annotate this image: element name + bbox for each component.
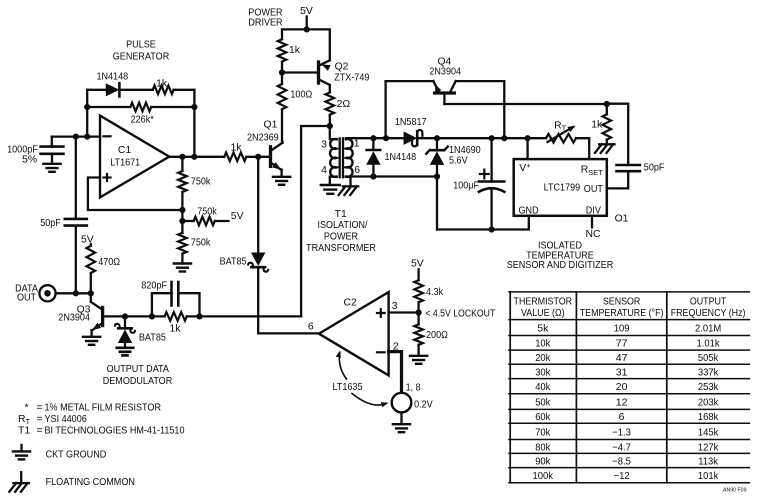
svg-text:6: 6 — [354, 165, 360, 176]
svg-text:4.3k: 4.3k — [426, 287, 444, 298]
capacitor 50pF (output) — [607, 162, 665, 188]
svg-text:LTC1799: LTC1799 — [544, 182, 581, 193]
transistor Q2 ZTX-749 — [319, 60, 370, 92]
svg-text:THERMISTOR: THERMISTOR — [514, 296, 573, 307]
wire Q3 base / demodulator — [103, 313, 165, 319]
resistor 1k (RSET bias) — [591, 104, 611, 144]
wire Q4 base to 1k — [444, 101, 610, 107]
wire zener to ground rail — [436, 177, 438, 230]
svg-text:1N5817: 1N5817 — [395, 117, 427, 128]
svg-text:=: = — [37, 425, 43, 436]
resistor 750k (middle, to 5V) — [182, 206, 228, 225]
label CKT GROUND — [46, 449, 107, 460]
wire Q2 base — [279, 69, 319, 75]
svg-text:BAT85: BAT85 — [220, 257, 247, 268]
label 01 — [615, 213, 629, 224]
resistor 1k (demodulator) — [165, 312, 302, 335]
svg-text:1k: 1k — [591, 120, 603, 131]
svg-text:ISOLATION/: ISOLATION/ — [317, 220, 367, 231]
table thermistor/temperature/frequency — [509, 292, 749, 483]
svg-text:145k: 145k — [698, 426, 719, 438]
pin DIV NC stub — [585, 216, 601, 240]
svg-text:FLOATING COMMON: FLOATING COMMON — [46, 477, 135, 488]
legend floating common symbol — [9, 472, 29, 492]
wire inverting input — [52, 134, 100, 140]
svg-text:YSI 44006: YSI 44006 — [45, 414, 87, 425]
svg-text:50pF: 50pF — [40, 218, 61, 229]
svg-text:80k: 80k — [535, 441, 551, 453]
svg-text:50k: 50k — [535, 397, 551, 409]
transistor Q3 2N3904 — [58, 293, 102, 336]
svg-text:70k: 70k — [535, 426, 551, 438]
svg-text:203k: 203k — [698, 397, 719, 409]
wire V+ pin — [526, 138, 528, 159]
wire C2 pin 2 — [389, 342, 402, 393]
svg-text:1, 8: 1, 8 — [406, 382, 421, 393]
ground — [410, 356, 427, 364]
svg-text:*: * — [24, 402, 28, 413]
svg-text:T1: T1 — [18, 425, 30, 436]
svg-text:12: 12 — [616, 397, 628, 409]
resistor 100ohm — [278, 84, 313, 142]
IC U1 LTC1799 — [514, 159, 607, 216]
svg-text:60k: 60k — [535, 411, 551, 423]
ground — [43, 164, 60, 172]
wire to ground — [400, 413, 402, 424]
ground — [273, 177, 290, 185]
diode BAT85 (demodulator) — [115, 316, 166, 347]
svg-text:337k: 337k — [698, 366, 719, 378]
capacitor 1000pF 5% — [7, 137, 63, 166]
resistor 750k (upper) — [178, 157, 211, 233]
transformer T1 core — [340, 138, 343, 177]
svg-text:2: 2 — [393, 342, 399, 353]
reference 0.2V (pins 1,8) — [392, 382, 433, 412]
svg-text:−12: −12 — [614, 470, 630, 482]
resistor 226k* — [84, 103, 197, 126]
label OUTPUT DATA DEMODULATOR — [103, 364, 173, 387]
svg-text:100Ω: 100Ω — [290, 89, 312, 100]
svg-text:O1: O1 — [615, 213, 629, 224]
svg-text:31: 31 — [616, 366, 628, 378]
legend ckt ground symbol — [13, 445, 30, 460]
capacitor 820pF — [141, 281, 199, 317]
svg-text:ZTX-749: ZTX-749 — [334, 73, 369, 84]
wire secondary top rail — [346, 135, 404, 141]
svg-text:TEMPERATURE (°F): TEMPERATURE (°F) — [580, 308, 664, 319]
ground — [321, 185, 340, 194]
svg-text:Q1: Q1 — [264, 120, 278, 131]
wire feedback right vertical — [191, 90, 197, 160]
resistor 2ohm — [326, 92, 351, 126]
svg-text:5k: 5k — [537, 322, 549, 334]
label PULSE GENERATOR — [113, 40, 170, 63]
power 5V — [411, 259, 424, 281]
wire secondary bottom — [346, 173, 440, 179]
svg-text:1.01k: 1.01k — [697, 338, 721, 350]
svg-text:1% METAL FILM RESISTOR: 1% METAL FILM RESISTOR — [45, 402, 162, 413]
wire non-inverting input loop — [88, 178, 186, 214]
wire 50pF to data out — [75, 226, 77, 294]
svg-text:=: = — [37, 414, 43, 425]
svg-text:T1: T1 — [335, 209, 347, 220]
svg-text:1N4148: 1N4148 — [385, 152, 417, 163]
svg-text:6: 6 — [308, 321, 314, 332]
label FLOATING COMMON — [46, 477, 135, 488]
wire 2ohm to transformer and demodulator tap — [301, 123, 333, 317]
pin 4 — [321, 165, 327, 176]
wire secondary top rail right — [417, 135, 546, 141]
svg-text:750k: 750k — [191, 177, 211, 188]
resistor 1k (power driver) — [278, 39, 301, 84]
svg-text:127k: 127k — [698, 441, 719, 453]
resistor 1k (feedback) — [119, 78, 194, 94]
svg-text:BAT85: BAT85 — [139, 332, 166, 343]
svg-text:Q2: Q2 — [335, 61, 349, 72]
diode BAT85 (clamp at Q1 base) — [220, 157, 269, 334]
svg-text:100μF: 100μF — [453, 180, 479, 191]
svg-text:2.01M: 2.01M — [695, 322, 721, 334]
transistor Q4 2N3904 — [386, 56, 505, 138]
svg-text:1: 1 — [354, 139, 360, 150]
label AN90 F09 — [723, 488, 747, 494]
svg-text:CKT GROUND: CKT GROUND — [46, 449, 107, 460]
svg-text:40k: 40k — [535, 381, 551, 393]
svg-text:1k: 1k — [156, 78, 168, 89]
svg-text:101k: 101k — [698, 470, 719, 482]
svg-text:GENERATOR: GENERATOR — [113, 52, 170, 63]
label T1 ISOLATION/ POWER TRANSFORMER — [306, 209, 376, 254]
label 5V — [231, 211, 244, 222]
svg-text:LT1635: LT1635 — [333, 382, 363, 393]
svg-text:−4.7: −4.7 — [612, 441, 631, 453]
ground — [393, 424, 410, 432]
svg-text:470Ω: 470Ω — [98, 257, 120, 268]
svg-text:1k: 1k — [170, 324, 182, 335]
pin 1 — [354, 139, 360, 150]
svg-text:TRANSFORMER: TRANSFORMER — [306, 243, 376, 254]
connector DATA OUT — [15, 283, 56, 303]
wire feedback left vertical — [86, 90, 88, 137]
wire RSET — [576, 138, 589, 159]
diode 1N4148 (rectifier) — [366, 138, 416, 176]
legend notes — [18, 402, 185, 436]
svg-text:BI TECHNOLOGIES HM-41-11510: BI TECHNOLOGIES HM-41-11510 — [45, 425, 185, 436]
svg-text:OUT: OUT — [584, 184, 604, 195]
svg-text:750k: 750k — [191, 237, 211, 248]
svg-text:6: 6 — [619, 411, 625, 423]
svg-text:4: 4 — [321, 165, 327, 176]
label POWER DRIVER — [248, 7, 283, 28]
wire C2 output pin 6 — [258, 321, 319, 333]
power 5V — [300, 6, 313, 29]
floating common — [595, 144, 615, 153]
svg-text:DIV: DIV — [586, 206, 601, 217]
svg-text:SENSOR AND DIGITIZER: SENSOR AND DIGITIZER — [507, 260, 614, 271]
wire OUT to 50pF — [607, 104, 628, 165]
svg-text:LT1671: LT1671 — [110, 157, 140, 168]
svg-text:−1.3: −1.3 — [612, 426, 631, 438]
svg-text:PULSE: PULSE — [126, 40, 156, 51]
transformer T1 secondary — [346, 138, 353, 177]
label LT1635 — [333, 351, 389, 408]
svg-text:VALUE (Ω): VALUE (Ω) — [521, 308, 565, 319]
svg-text:SENSOR: SENSOR — [603, 296, 641, 307]
svg-text:−8.5: −8.5 — [612, 455, 631, 467]
svg-text:100k: 100k — [533, 470, 554, 482]
svg-text:200Ω: 200Ω — [426, 330, 448, 341]
svg-text:AN90 F09: AN90 F09 — [723, 488, 747, 494]
thermistor RT — [546, 120, 576, 142]
svg-text:2N2369: 2N2369 — [247, 132, 279, 143]
pin 6 — [354, 165, 360, 176]
label 5V — [81, 234, 94, 245]
svg-text:5%: 5% — [22, 154, 37, 165]
svg-text:5V: 5V — [231, 211, 244, 222]
svg-text:0.2V: 0.2V — [414, 399, 433, 410]
svg-text:FREQUENCY (Hz): FREQUENCY (Hz) — [671, 308, 746, 319]
svg-text:OUTPUT DATA: OUTPUT DATA — [107, 364, 169, 375]
resistor 750k (lower) — [178, 233, 211, 264]
capacitor 50pF — [40, 218, 87, 229]
svg-text:5V: 5V — [411, 259, 424, 270]
svg-text:C2: C2 — [344, 298, 358, 309]
label <4.5V LOCKOUT — [425, 309, 495, 320]
svg-text:1N4148: 1N4148 — [96, 71, 128, 82]
comparator C1 LT1671 — [100, 116, 169, 198]
svg-text:505k: 505k — [698, 352, 719, 364]
resistor 200ohm — [414, 313, 448, 356]
capacitor 100uF — [453, 138, 504, 229]
svg-text:=: = — [37, 402, 43, 413]
svg-text:5.6V: 5.6V — [449, 155, 468, 166]
svg-text:< 4.5V LOCKOUT: < 4.5V LOCKOUT — [425, 309, 495, 320]
svg-text:DRIVER: DRIVER — [248, 17, 283, 28]
svg-text:C1: C1 — [118, 145, 132, 156]
wire comparator output — [169, 154, 224, 160]
zener diode 1N4690 5.6V — [426, 138, 481, 176]
wire to 50pF — [75, 137, 77, 219]
svg-text:OUTPUT: OUTPUT — [690, 296, 727, 307]
svg-text:113k: 113k — [698, 455, 718, 467]
resistor 4.3k — [414, 280, 443, 312]
svg-text:2Ω: 2Ω — [337, 99, 351, 110]
svg-text:20: 20 — [616, 381, 628, 393]
wire C2 pin 3 — [389, 301, 422, 316]
wire data out — [56, 290, 94, 296]
svg-text:3: 3 — [321, 139, 327, 150]
ground — [174, 264, 191, 272]
svg-text:DEMODULATOR: DEMODULATOR — [103, 376, 173, 387]
svg-text:20k: 20k — [535, 352, 551, 364]
svg-text:168k: 168k — [698, 411, 719, 423]
wire isolated ground rail — [437, 216, 529, 233]
svg-text:NC: NC — [585, 229, 601, 240]
svg-text:226k*: 226k* — [131, 115, 154, 126]
svg-text:820pF: 820pF — [141, 281, 167, 292]
svg-text:90k: 90k — [535, 455, 551, 467]
floating common — [339, 177, 359, 195]
svg-text:47: 47 — [616, 352, 628, 364]
resistor 1k (to Q1 base) — [224, 143, 270, 162]
svg-text:1k: 1k — [231, 143, 243, 154]
svg-text:POWER: POWER — [324, 232, 359, 243]
ground — [83, 337, 100, 345]
label ISOLATED TEMPERATURE SENSOR AND DIGITIZER — [507, 241, 614, 272]
op-amp C2 LT1635 — [319, 292, 389, 375]
svg-text:253k: 253k — [698, 381, 719, 393]
svg-text:1k: 1k — [289, 45, 301, 56]
diode 1N4148 (feedback) — [87, 71, 128, 96]
svg-text:750k: 750k — [197, 206, 217, 217]
svg-text:50pF: 50pF — [644, 162, 665, 173]
ground — [117, 348, 133, 356]
transformer T1 primary — [330, 126, 337, 185]
diode 1N5817 — [395, 117, 427, 146]
resistor 470ohm — [87, 244, 121, 293]
svg-text:3: 3 — [392, 301, 398, 312]
svg-text:30k: 30k — [535, 366, 551, 378]
svg-text:2N3904: 2N3904 — [429, 67, 461, 78]
transistor Q1 2N2369 — [247, 120, 282, 177]
svg-text:77: 77 — [616, 338, 628, 350]
svg-text:2N3904: 2N3904 — [58, 313, 90, 324]
svg-text:GND: GND — [519, 206, 539, 217]
pin 3 — [321, 139, 327, 150]
svg-text:109: 109 — [614, 322, 630, 334]
svg-text:OUT: OUT — [17, 293, 37, 304]
wire 5V rail — [282, 26, 330, 60]
svg-text:10k: 10k — [535, 338, 551, 350]
